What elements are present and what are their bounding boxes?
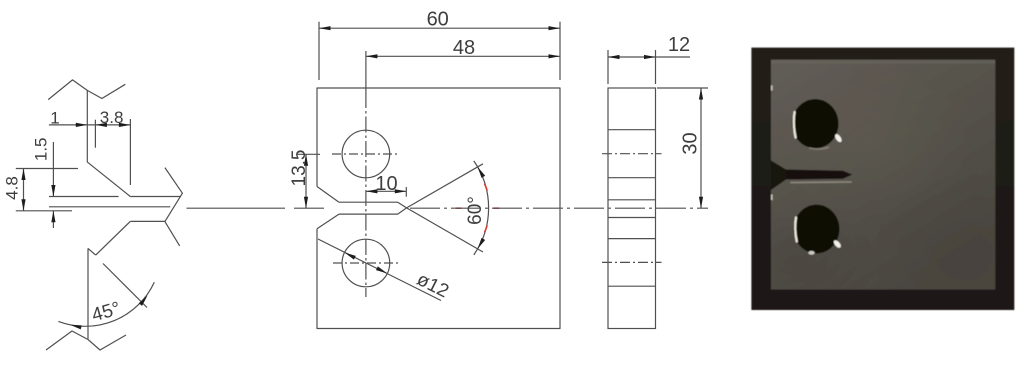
- lower hole horizontal centerline: [333, 262, 399, 264]
- photo: lower hole: [794, 205, 840, 254]
- extension line bottom reference (4.8 / 1.5): [16, 210, 72, 212]
- svg-text:30: 30: [680, 132, 702, 154]
- side view: upper hole bottom edge: [608, 177, 656, 179]
- arrow d12 lower-right on circle: [376, 266, 388, 275]
- extension line 30 top: [657, 87, 708, 89]
- detail: slot bottom edge with left extension: [49, 206, 170, 208]
- photograph of machined specimen (right side): [0, 0, 1, 1]
- detail: slot top edge: [130, 196, 181, 198]
- arrow 1.5 top (outside): [51, 185, 55, 197]
- extension line at slot left edge (3.8): [94, 120, 96, 148]
- leader line d12: [318, 239, 441, 301]
- extension line 12 right: [655, 50, 657, 84]
- extension line 60/48 right: [559, 22, 561, 80]
- photo: upper hole: [792, 99, 838, 148]
- centerline stub entering notch mouth: [294, 207, 324, 209]
- arrow 1.5 bottom (outside): [51, 211, 55, 223]
- extension tick above notch tip (10): [405, 187, 407, 197]
- svg-text:12: 12: [668, 34, 690, 56]
- svg-text:10: 10: [375, 173, 397, 195]
- side view: lower hole centerline: [602, 261, 662, 263]
- svg-text:13.5: 13.5: [289, 150, 310, 187]
- red tick marks on 60-deg angular dimension: [456, 184, 500, 233]
- photo: dark background: [751, 48, 1014, 310]
- arrow tip at slot left edge: [95, 123, 107, 127]
- arrow 13.5 bottom: [304, 197, 308, 209]
- arrow 12 right: [644, 55, 656, 59]
- arrow 10 right: [395, 189, 407, 193]
- detail: 45-degree bevel construction line: [103, 264, 147, 308]
- arrow 4.8 bottom: [21, 199, 25, 211]
- horizontal centerline between detail and main view: [187, 207, 286, 209]
- arrow d12 upper-left on circle: [344, 251, 356, 260]
- 60-deg dimension arc: [474, 161, 489, 255]
- main view: notch V upper bevel: [317, 187, 339, 203]
- photo: upper hole rim highlights: [794, 112, 796, 138]
- svg-text:60: 60: [427, 9, 449, 31]
- dimension line 13.5: [305, 154, 307, 208]
- photo: subtle surface mottling (clipped to specimen): [710, 55, 1024, 340]
- detail: bottom break zigzag line: [46, 331, 126, 350]
- main view: slot top edge tapering to tip: [339, 202, 407, 208]
- arrow on 60-deg arc lower: [476, 238, 485, 250]
- extension line 12 left: [607, 50, 609, 84]
- dimension line for 1 and 3.8: [49, 124, 130, 126]
- svg-text:ø12: ø12: [413, 269, 452, 302]
- svg-text:1.5: 1.5: [32, 137, 51, 161]
- arrow on 45-deg arc (left): [70, 323, 82, 330]
- side view (12 wide section): [608, 88, 656, 329]
- extension line 60 left: [318, 22, 320, 80]
- photo: notch slot: [786, 170, 852, 180]
- extension line of dim 48 down to hole centerline: [365, 51, 367, 92]
- detail: specimen left edge (lower segment): [87, 248, 89, 339]
- main view: lower hole (d12): [342, 239, 390, 287]
- dimension line 48: [366, 55, 560, 57]
- arrow tip of dim 3.8 (right): [119, 123, 131, 127]
- extension line top reference (4.8): [16, 168, 78, 170]
- arrow on 45-deg arc (right): [139, 294, 149, 306]
- dimension line 60: [319, 27, 560, 29]
- photo: lower hole rim highlights: [795, 218, 797, 242]
- vertical centerline through both holes: [365, 92, 367, 297]
- detail: top break zigzag line: [48, 80, 125, 100]
- main view: notch V lower bevel: [317, 214, 339, 229]
- dimension line 30: [700, 88, 702, 208]
- photo: gray specimen block: [771, 60, 995, 290]
- svg-text:45°: 45°: [90, 298, 123, 326]
- detail: notch V upper bevel: [87, 162, 130, 197]
- main view: square outline with notch gap on left edge: [317, 88, 560, 329]
- arrow 12 left: [608, 55, 620, 59]
- long horizontal centerline through notch plane: [410, 207, 708, 209]
- main view: upper hole (d12): [342, 130, 390, 178]
- side view: lower hole bottom edge: [608, 285, 656, 287]
- arrow 48 left: [366, 54, 378, 58]
- arrow 48 right: [549, 54, 561, 58]
- dimension line 12 with tail: [608, 56, 690, 58]
- arrow 30 top: [699, 88, 703, 100]
- arrow 60 left: [319, 26, 331, 30]
- svg-text:4.8: 4.8: [3, 176, 22, 200]
- arrow 10 left: [366, 189, 378, 193]
- dimension line 4.8: [23, 169, 25, 211]
- side view: slot bottom edge: [608, 217, 656, 219]
- arrow on 60-deg arc upper: [476, 166, 485, 178]
- extension line 13.5 top (hole centerline level): [297, 153, 320, 155]
- 60-deg angle lower line: [407, 208, 483, 252]
- side view: upper hole top edge: [608, 129, 656, 131]
- arrow tip of dim 1 (left, outside): [76, 123, 88, 127]
- photo: bright reflection line under slot: [791, 181, 851, 184]
- detail: notch V lower bevel: [96, 221, 131, 255]
- arrow 30 bottom: [699, 197, 703, 209]
- upper hole horizontal centerline: [332, 153, 400, 155]
- dimension leader 1.5 (upper): [52, 142, 54, 197]
- svg-text:1: 1: [50, 109, 59, 128]
- detail: freehand break line across slot: [165, 168, 183, 246]
- extension line at slot right edge (3.8): [129, 119, 131, 185]
- side view: slot top edge: [608, 199, 656, 201]
- detail: lower bevel edge spike: [88, 248, 96, 255]
- dimension leader 1.5 (lower): [52, 211, 54, 228]
- detail: lower notch flank line: [130, 220, 165, 222]
- detail: slot-top extension line (left): [49, 196, 119, 198]
- side view: upper hole centerline: [602, 153, 662, 155]
- photo: notch V opening at left edge: [771, 161, 786, 191]
- 60-deg angle upper line: [407, 164, 483, 208]
- dimension line 10: [366, 190, 406, 192]
- svg-text:60°: 60°: [465, 196, 486, 225]
- main view: slot bottom edge tapering to tip: [339, 208, 407, 214]
- svg-text:3.8: 3.8: [100, 108, 124, 127]
- arrow 4.8 top: [21, 169, 25, 181]
- photo: small edge glints: [771, 86, 773, 91]
- svg-text:48: 48: [453, 37, 475, 59]
- arrow 60 right: [549, 26, 561, 30]
- arrow 13.5 top: [304, 154, 308, 166]
- side view: lower hole top edge: [608, 238, 656, 240]
- detail: specimen left edge (upper segment): [86, 90, 88, 161]
- detail: 45-degree dimension arc: [58, 282, 154, 326]
